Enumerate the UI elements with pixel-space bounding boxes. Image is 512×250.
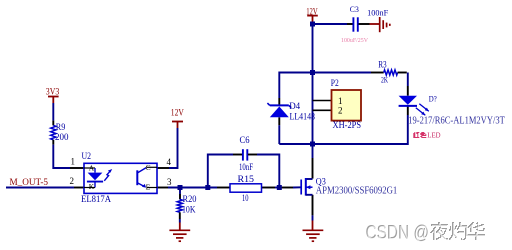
svg-text:3: 3 <box>167 177 172 187</box>
svg-text:C: C <box>146 163 151 172</box>
svg-text:1: 1 <box>71 157 76 167</box>
svg-text:2: 2 <box>70 176 75 186</box>
svg-text:P2: P2 <box>331 79 339 89</box>
svg-text:R15: R15 <box>238 175 255 185</box>
svg-text:100uF/25V: 100uF/25V <box>341 37 368 44</box>
svg-text:XH-2PS: XH-2PS <box>333 121 362 131</box>
svg-text:200: 200 <box>55 133 69 143</box>
svg-text:R20: R20 <box>183 195 197 205</box>
svg-text:C6: C6 <box>240 136 250 146</box>
svg-text:R3: R3 <box>378 59 387 69</box>
svg-text:R9: R9 <box>56 123 66 133</box>
svg-text:10K: 10K <box>182 206 196 216</box>
svg-text:12V: 12V <box>171 107 184 117</box>
svg-text:10: 10 <box>242 194 249 204</box>
svg-text:A: A <box>89 164 95 173</box>
svg-text:EL817A: EL817A <box>81 195 111 205</box>
svg-text:LED: LED <box>427 133 440 140</box>
svg-text:E: E <box>146 182 151 191</box>
svg-text:K: K <box>89 182 95 191</box>
svg-text:2K: 2K <box>381 74 389 84</box>
svg-text:4: 4 <box>167 157 172 167</box>
svg-text:CSDN @: CSDN @ <box>367 223 431 244</box>
svg-text:10nF: 10nF <box>239 163 253 173</box>
svg-text:LL4148: LL4148 <box>290 113 316 123</box>
svg-text:2: 2 <box>338 106 343 116</box>
svg-text:D4: D4 <box>289 102 300 112</box>
svg-text:100nF: 100nF <box>367 9 389 18</box>
svg-text:APM2300/SSF6092G1: APM2300/SSF6092G1 <box>316 186 398 197</box>
svg-text:19-217/R6C-AL1M2VY/3T: 19-217/R6C-AL1M2VY/3T <box>408 115 505 126</box>
svg-text:U2: U2 <box>82 152 92 162</box>
svg-text:C3: C3 <box>350 4 359 14</box>
svg-text:M_OUT-5: M_OUT-5 <box>10 178 49 188</box>
svg-text:D?: D? <box>429 93 437 103</box>
svg-text:3V3: 3V3 <box>46 86 60 96</box>
svg-text:1: 1 <box>338 96 343 106</box>
